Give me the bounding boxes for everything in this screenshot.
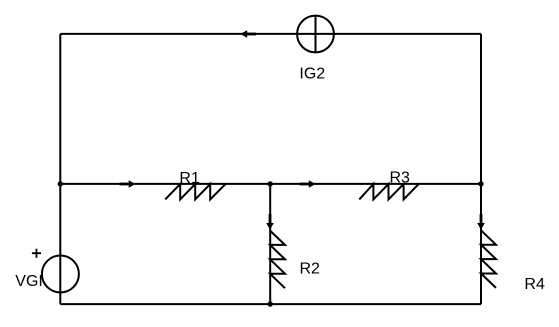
arrow on R2 branch (points down) bbox=[266, 214, 274, 230]
current source IG2 vertical bar bbox=[315, 16, 317, 53]
svg-text:R2: R2 bbox=[300, 260, 321, 277]
wire middle horizontal bbox=[60, 183, 481, 185]
resistor R2 (sawtooth vertical) bbox=[270, 231, 285, 289]
node dot bottom of R2 bbox=[268, 301, 273, 306]
svg-text:IG2: IG2 bbox=[299, 66, 325, 83]
arrow on top wire (points left, IG2 current direction) bbox=[240, 30, 256, 38]
arrow on middle wire left (points right) bbox=[120, 180, 136, 188]
svg-text:R3: R3 bbox=[390, 170, 411, 187]
resistor R1 (sawtooth) bbox=[165, 184, 225, 199]
wire middle vertical (R2 branch) bbox=[269, 184, 271, 304]
wire top (node between IG2 loop corners) bbox=[60, 33, 481, 35]
node dot middle (R1/R3/R2 junction) bbox=[268, 181, 273, 186]
current source U/IG2 circle bbox=[297, 16, 334, 53]
svg-text:VGI: VGI bbox=[15, 273, 43, 290]
wire bottom bbox=[60, 303, 481, 305]
wire left vertical bbox=[59, 34, 61, 304]
resistor R3 (sawtooth) bbox=[359, 184, 418, 199]
plus sign of VGI bbox=[32, 249, 41, 258]
wire right vertical bbox=[480, 34, 482, 304]
node dot left-middle bbox=[58, 181, 63, 186]
resistor R4 (sawtooth vertical) bbox=[481, 230, 496, 288]
node dot right-middle bbox=[478, 181, 483, 186]
svg-text:R1: R1 bbox=[179, 170, 200, 187]
arrow on middle wire right (points right) bbox=[300, 180, 316, 188]
arrow on R4 branch (points down) bbox=[477, 214, 485, 230]
svg-text:R4: R4 bbox=[524, 276, 545, 293]
voltage source VGI circle bbox=[42, 256, 79, 293]
